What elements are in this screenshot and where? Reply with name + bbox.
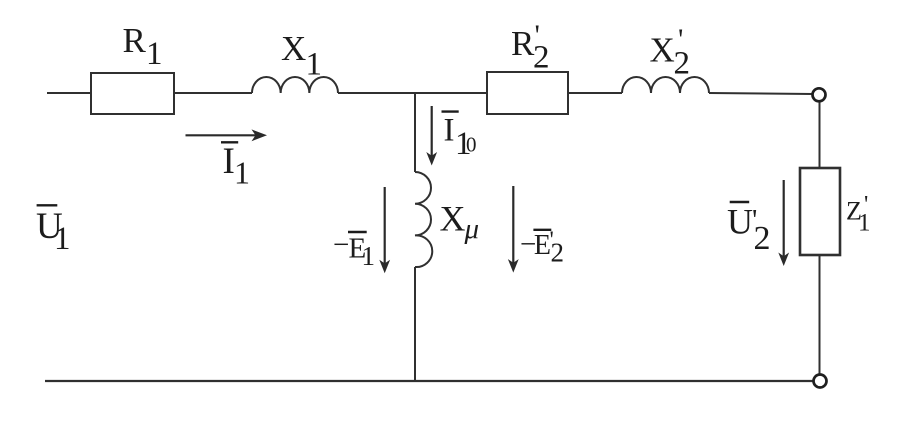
wire R'2 to X'2 xyxy=(568,92,622,94)
svg-text:−: − xyxy=(333,229,349,261)
wire X'2 to top terminal xyxy=(709,93,813,94)
inductor X'2 xyxy=(622,77,709,93)
label R1 xyxy=(123,21,163,72)
svg-text:1: 1 xyxy=(146,36,163,72)
terminal bottom right xyxy=(814,375,827,388)
svg-text:X: X xyxy=(440,198,466,238)
wire top terminal to Z'1 xyxy=(819,102,821,169)
arrow I10 xyxy=(426,106,437,166)
arrow -E1 xyxy=(379,187,390,273)
svg-text:U: U xyxy=(727,201,753,241)
wire node to Xmu coil xyxy=(414,93,416,172)
label U'2 with overbar xyxy=(727,201,771,257)
impedance Z'1 xyxy=(800,168,840,255)
wire top left stub xyxy=(47,92,91,94)
label X1 xyxy=(281,29,322,83)
svg-text:I: I xyxy=(223,141,235,182)
label I1 with overbar xyxy=(221,141,250,191)
svg-text:2: 2 xyxy=(674,45,691,81)
terminal top right xyxy=(813,88,826,101)
svg-text:X: X xyxy=(281,29,306,68)
svg-text:2: 2 xyxy=(551,238,565,268)
label Xmu xyxy=(440,198,480,245)
svg-text:1: 1 xyxy=(54,221,71,257)
wire bottom xyxy=(45,380,814,382)
svg-text:μ: μ xyxy=(464,213,480,245)
wire R1 to X1 xyxy=(174,92,252,94)
label -E1 with overbar xyxy=(333,229,375,271)
svg-text:1: 1 xyxy=(306,47,323,83)
svg-text:I: I xyxy=(444,112,455,148)
label X'2 xyxy=(650,23,691,81)
svg-text:1: 1 xyxy=(362,241,376,271)
svg-text:R: R xyxy=(511,24,535,63)
wire X1 to R'2 (through node) xyxy=(338,92,487,94)
inductor X1 xyxy=(252,77,338,93)
svg-text:1: 1 xyxy=(234,155,250,191)
label U1 with overbar xyxy=(36,205,71,257)
resistor R'2 xyxy=(487,72,568,114)
inductor Xmu xyxy=(415,172,432,267)
resistor R1 xyxy=(91,73,174,114)
label I10 with overbar xyxy=(442,112,477,162)
svg-text:0: 0 xyxy=(466,133,477,157)
arrow U'2 xyxy=(778,180,789,266)
svg-text:E: E xyxy=(534,230,551,261)
svg-text:X: X xyxy=(650,30,675,69)
arrow -E'2 xyxy=(508,186,519,273)
wire Xmu coil to bottom wire xyxy=(414,267,416,382)
arrow I1 xyxy=(186,129,268,141)
svg-text:1: 1 xyxy=(858,210,871,237)
wire Z'1 to bottom terminal xyxy=(819,255,821,375)
label Z'1 xyxy=(846,192,871,237)
svg-text:2: 2 xyxy=(754,220,771,257)
svg-text:2: 2 xyxy=(533,40,550,76)
label R'2 xyxy=(511,19,550,76)
label -E'2 with overbar xyxy=(520,228,564,268)
svg-text:R: R xyxy=(123,21,147,60)
